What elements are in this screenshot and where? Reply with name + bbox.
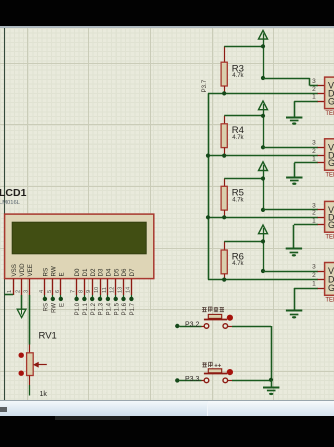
svg-text:1: 1 xyxy=(312,280,316,287)
svg-text:D4: D4 xyxy=(106,268,113,276)
svg-text:3: 3 xyxy=(312,263,316,270)
svg-text:LCD1: LCD1 xyxy=(0,187,27,199)
svg-text:5: 5 xyxy=(47,290,53,293)
svg-text:RV1: RV1 xyxy=(39,331,57,342)
svg-text:14: 14 xyxy=(125,287,131,293)
svg-text:3: 3 xyxy=(312,140,316,147)
svg-text:G: G xyxy=(328,220,334,230)
svg-text:++: ++ xyxy=(214,363,222,369)
svg-text:P1.4: P1.4 xyxy=(107,302,113,315)
svg-text:RW: RW xyxy=(50,266,57,276)
svg-text:2: 2 xyxy=(16,290,22,293)
svg-text:3: 3 xyxy=(312,78,316,85)
svg-text:4: 4 xyxy=(39,290,45,293)
svg-text:2: 2 xyxy=(312,272,316,279)
svg-text:1: 1 xyxy=(7,290,13,293)
svg-text:VEE: VEE xyxy=(27,264,34,276)
svg-text:D3: D3 xyxy=(98,268,105,276)
svg-text:4.7k: 4.7k xyxy=(232,135,244,141)
svg-text:P3.2: P3.2 xyxy=(185,322,200,329)
svg-text:RS: RS xyxy=(44,303,50,311)
svg-text:VDD: VDD xyxy=(19,263,26,277)
svg-text:VSS: VSS xyxy=(11,264,18,276)
svg-text:7: 7 xyxy=(71,290,77,293)
svg-text:1: 1 xyxy=(312,217,316,224)
svg-text:1: 1 xyxy=(312,155,316,162)
svg-text:D2: D2 xyxy=(90,268,97,276)
svg-text:P1.6: P1.6 xyxy=(122,302,128,315)
svg-text:1: 1 xyxy=(312,94,316,101)
svg-text:E: E xyxy=(59,303,65,307)
svg-text:10: 10 xyxy=(94,287,100,293)
svg-text:4.7k: 4.7k xyxy=(232,197,244,203)
svg-text:3: 3 xyxy=(24,290,30,293)
svg-text:P1.5: P1.5 xyxy=(114,302,120,315)
svg-text:D5: D5 xyxy=(113,268,120,276)
svg-text:P1.0: P1.0 xyxy=(75,302,81,315)
svg-text:2: 2 xyxy=(312,148,316,155)
svg-text:2: 2 xyxy=(312,86,316,93)
svg-text:2: 2 xyxy=(312,210,316,217)
svg-text:LM016L: LM016L xyxy=(0,200,21,206)
svg-text:TEM: TEM xyxy=(325,173,334,179)
svg-text:P1.1: P1.1 xyxy=(83,302,89,315)
svg-text:TEM: TEM xyxy=(325,298,334,304)
svg-text:6: 6 xyxy=(55,290,61,293)
svg-text:P3.3: P3.3 xyxy=(185,376,200,383)
svg-text:TEM: TEM xyxy=(325,111,334,117)
svg-text:P3.7: P3.7 xyxy=(201,79,208,92)
svg-text:3: 3 xyxy=(312,202,316,209)
svg-text:G: G xyxy=(328,158,334,168)
svg-text:RW: RW xyxy=(51,303,57,313)
svg-text:D0: D0 xyxy=(74,268,81,276)
svg-text:P1.7: P1.7 xyxy=(130,302,136,315)
svg-text:TEM: TEM xyxy=(325,235,334,241)
svg-text:G: G xyxy=(328,96,334,106)
svg-text:4.7k: 4.7k xyxy=(232,73,244,79)
svg-text:P1.3: P1.3 xyxy=(99,302,105,315)
svg-text:13: 13 xyxy=(118,287,124,293)
svg-text:D7: D7 xyxy=(129,268,136,276)
svg-text:G: G xyxy=(328,283,334,293)
svg-text:RS: RS xyxy=(43,268,50,277)
svg-text:11: 11 xyxy=(102,287,108,293)
svg-text:4.7k: 4.7k xyxy=(232,261,244,267)
svg-text:12: 12 xyxy=(110,287,116,293)
svg-text:P1.2: P1.2 xyxy=(91,302,97,315)
svg-text:D1: D1 xyxy=(82,268,89,276)
svg-text:8: 8 xyxy=(78,290,84,293)
svg-text:E: E xyxy=(58,272,65,276)
svg-text:9: 9 xyxy=(86,290,92,293)
svg-text:1k: 1k xyxy=(40,391,48,398)
svg-text:D6: D6 xyxy=(121,268,128,276)
